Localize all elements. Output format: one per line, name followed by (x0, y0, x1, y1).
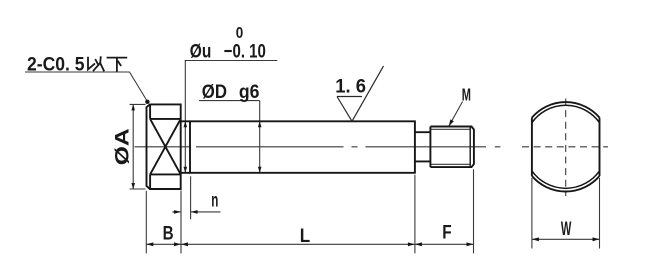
svg-text:2-C0. 5: 2-C0. 5 (27, 54, 85, 75)
svg-text:F: F (442, 222, 451, 244)
svg-text:1. 6: 1. 6 (335, 76, 366, 98)
svg-text:L: L (300, 225, 310, 247)
svg-text:Øu: Øu (190, 41, 212, 63)
svg-text:ØD: ØD (202, 81, 227, 103)
svg-text:B: B (163, 223, 174, 245)
svg-text:0: 0 (236, 25, 244, 42)
svg-text:M: M (462, 84, 471, 104)
svg-text:n: n (211, 190, 218, 212)
svg-text:g6: g6 (239, 81, 260, 103)
svg-text:W: W (561, 218, 572, 240)
svg-text:ØA: ØA (111, 128, 133, 165)
svg-text:−0. 10: −0. 10 (224, 41, 266, 63)
